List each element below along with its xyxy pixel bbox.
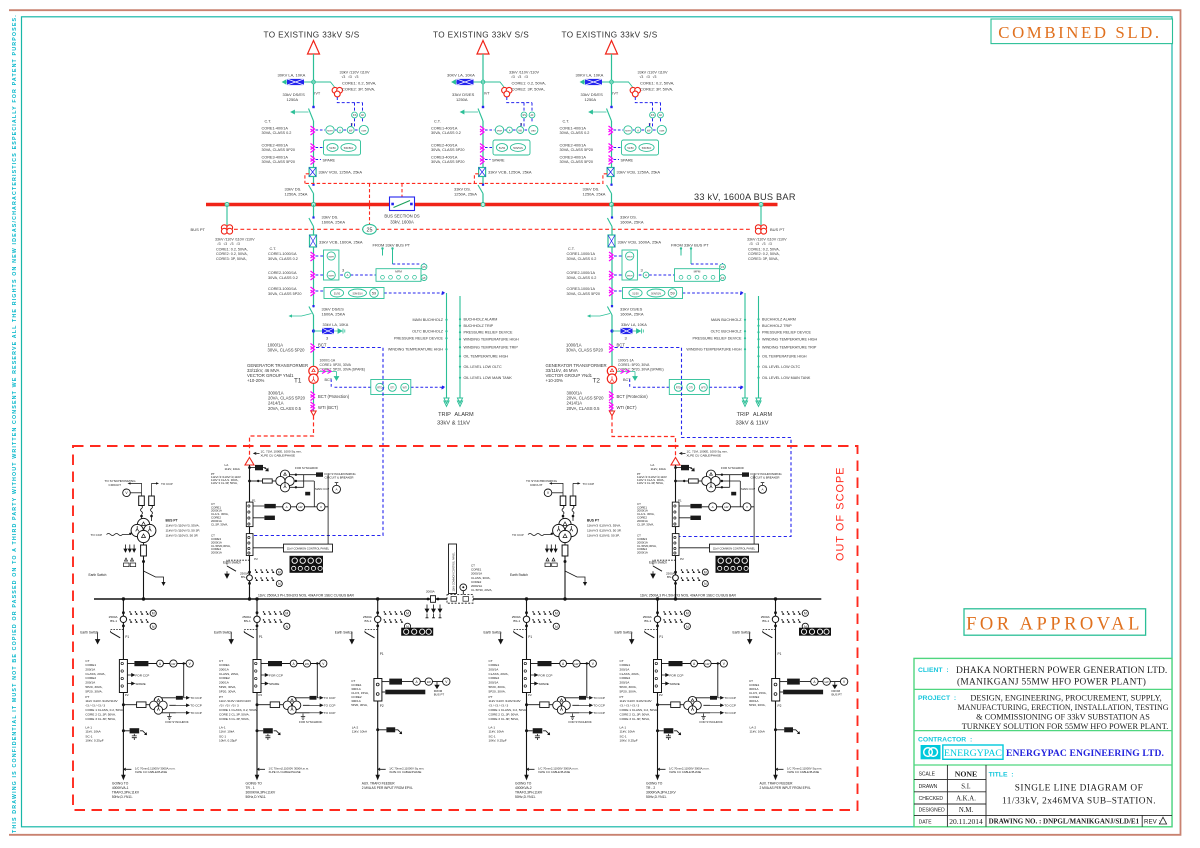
svg-text:3000KVA,3PH,11KV: 3000KVA,3PH,11KV bbox=[646, 791, 677, 795]
svg-text:11/33kV, 2x46MVA SUB–STATION.: 11/33kV, 2x46MVA SUB–STATION. bbox=[1002, 796, 1156, 806]
aux trafo feeder 1 bbox=[335, 597, 450, 790]
svg-text:50Hz,D.YN11.: 50Hz,D.YN11. bbox=[515, 795, 536, 799]
bus PT 2 bbox=[755, 225, 761, 231]
for approval box bbox=[964, 609, 1146, 635]
svg-text:THIS DRAWING IS CONFIDENTIAL I: THIS DRAWING IS CONFIDENTIAL IT MUST NOT… bbox=[12, 14, 18, 833]
svg-text:DRAWING NO. : DNPGL/MANIKGANJ/: DRAWING NO. : DNPGL/MANIKGANJ/SLD/E1 bbox=[989, 817, 1140, 825]
bus junction node bbox=[759, 203, 763, 207]
svg-text:N.M.: N.M. bbox=[959, 807, 974, 814]
title block frame bbox=[914, 658, 1172, 826]
red dashed protection line bbox=[234, 228, 752, 230]
alarm block T2 bbox=[686, 293, 817, 427]
svg-text:CORE1: 0.2, 50VA,: CORE1: 0.2, 50VA, bbox=[216, 248, 248, 252]
svg-text:CLIENT :: CLIENT : bbox=[918, 667, 949, 674]
incomer 1 bus joint bbox=[248, 597, 251, 600]
svg-text:SCALE: SCALE bbox=[919, 771, 936, 777]
svg-text:GOING TO: GOING TO bbox=[646, 782, 663, 786]
11kV feeder bay 2 bbox=[214, 597, 335, 780]
svg-text:GOING TO: GOING TO bbox=[246, 782, 263, 786]
svg-text:GOING TO: GOING TO bbox=[112, 782, 129, 786]
svg-text:4000KVA-2: 4000KVA-2 bbox=[515, 786, 532, 790]
svg-text:CORE1: 0.2, 50VA,: CORE1: 0.2, 50VA, bbox=[748, 248, 780, 252]
mid below-bus arrester set bbox=[425, 605, 429, 613]
svg-text:TURNKEY SOLUTION FOR 55MW HFO: TURNKEY SOLUTION FOR 55MW HFO POWER PLAN… bbox=[962, 722, 1169, 731]
svg-text:CORE2: 0.2, 50VA,: CORE2: 0.2, 50VA, bbox=[748, 252, 780, 256]
svg-text:S.I.: S.I. bbox=[961, 783, 971, 790]
svg-text:TR - 2: TR - 2 bbox=[646, 786, 655, 790]
aux trafo feeder 2 bbox=[733, 597, 848, 790]
svg-text:TO EXISTING 33kV S/S: TO EXISTING 33kV S/S bbox=[263, 31, 359, 40]
svg-text:3000KVA,3PH,11KV: 3000KVA,3PH,11KV bbox=[246, 791, 277, 795]
bus junction node bbox=[610, 203, 614, 207]
mid panel box bbox=[449, 544, 457, 594]
svg-text:T1: T1 bbox=[294, 377, 302, 384]
svg-text:CORE3: 3P, 50VA,: CORE3: 3P, 50VA, bbox=[216, 257, 247, 261]
bus PT 2 riser bbox=[760, 205, 762, 226]
blue dashed link T2 to incomer panel bbox=[615, 348, 792, 537]
svg-text:50Hz,D.YN11.: 50Hz,D.YN11. bbox=[246, 795, 267, 799]
bus PT 1 riser bbox=[226, 205, 228, 226]
svg-text:DESIGNED: DESIGNED bbox=[919, 807, 946, 813]
svg-text:TITLE :: TITLE : bbox=[989, 771, 1014, 778]
mid bus PT bbox=[460, 584, 467, 591]
station transformer group 1 bbox=[89, 479, 200, 599]
svg-text:2000A: 2000A bbox=[426, 590, 435, 594]
svg-text:11kV, 2500A,3 PH, 50HzX3 NOS,: 11kV, 2500A,3 PH, 50HzX3 NOS, 40kA FOR 1… bbox=[258, 594, 354, 598]
alarm block T1 bbox=[388, 293, 519, 427]
33kV bus bar bbox=[206, 203, 778, 206]
11kV incomer 2 bbox=[637, 450, 782, 599]
bus junction node bbox=[225, 203, 229, 207]
svg-text:50Hz,D.YN11.: 50Hz,D.YN11. bbox=[646, 795, 667, 799]
svg-text:OUT OF SCOPE: OUT OF SCOPE bbox=[835, 466, 847, 561]
svg-text:TRAFO,3PH,11KV: TRAFO,3PH,11KV bbox=[112, 791, 140, 795]
svg-text:CONTRACTOR :: CONTRACTOR : bbox=[918, 736, 972, 743]
svg-text:DESIGN, ENGINEERING, PROCUREME: DESIGN, ENGINEERING, PROCUREMENT, SUPPLY… bbox=[970, 694, 1161, 703]
combined sld box bbox=[991, 19, 1173, 44]
svg-text:DHAKA NORTHERN POWER GENERATIO: DHAKA NORTHERN POWER GENERATION LTD. bbox=[956, 666, 1167, 676]
11kV bus bar bbox=[94, 598, 821, 600]
svg-text:√3 √3 √3 √3: √3 √3 √3 √3 bbox=[749, 242, 772, 246]
bus section DS pins bbox=[391, 203, 394, 206]
svg-text:11kV COMMON CONTROL PANEL: 11kV COMMON CONTROL PANEL bbox=[453, 551, 456, 591]
svg-text:MANUFACTURING, ERECTION, INSTA: MANUFACTURING, ERECTION, INSTALLATION, T… bbox=[957, 703, 1168, 712]
svg-text:ENERGYPAC: ENERGYPAC bbox=[944, 748, 1002, 759]
svg-text:BUS PT: BUS PT bbox=[191, 227, 206, 232]
bus dashed device box bbox=[447, 595, 473, 604]
svg-text:ENERGYPAC ENGINEERING LTD.: ENERGYPAC ENGINEERING LTD. bbox=[1006, 748, 1164, 759]
bus PT 1 bbox=[221, 225, 227, 231]
title block row lines bbox=[914, 689, 1172, 765]
transformer bay T2 bbox=[546, 205, 744, 416]
33kV feeder bay 2 bbox=[431, 41, 546, 205]
red dashed drop to bus section DS bbox=[401, 183, 403, 197]
station group 1 bus joint bbox=[142, 597, 145, 600]
transformer bay T1 bbox=[247, 205, 445, 416]
title block small grid bbox=[914, 765, 1172, 827]
svg-text:33kV /110V /110V /110V: 33kV /110V /110V /110V bbox=[747, 238, 787, 242]
bus section DS box bbox=[390, 197, 415, 211]
svg-text:NONE: NONE bbox=[955, 769, 978, 778]
bus section DS blade bbox=[394, 201, 411, 208]
energypac logo box bbox=[943, 745, 1003, 759]
red dashed interlock rail bbox=[306, 182, 604, 184]
svg-text:COMBINED SLD.: COMBINED SLD. bbox=[998, 23, 1161, 42]
svg-text:REV :: REV : bbox=[1144, 818, 1160, 825]
svg-text:GOING TO: GOING TO bbox=[515, 782, 532, 786]
svg-text:11kV, 2500A,3 PH, 50HzX3 NOS,: 11kV, 2500A,3 PH, 50HzX3 NOS, 40kA FOR 1… bbox=[640, 594, 736, 598]
svg-text:T2: T2 bbox=[593, 377, 601, 384]
bus junction node bbox=[481, 203, 485, 207]
rev cell line bbox=[1141, 815, 1143, 826]
energypac logo emblem bbox=[921, 745, 941, 759]
svg-text:(MANIKGANJ 55MW HFO POWER PLAN: (MANIKGANJ 55MW HFO POWER PLANT) bbox=[957, 677, 1146, 688]
svg-text:FOR APPROVAL: FOR APPROVAL bbox=[966, 615, 1143, 635]
33kV feeder bay 3 bbox=[560, 41, 675, 205]
svg-text:TR - 1: TR - 1 bbox=[246, 786, 255, 790]
svg-text:BUS PT: BUS PT bbox=[770, 227, 785, 232]
svg-text:CORE2: 0.2, 50VA,: CORE2: 0.2, 50VA, bbox=[216, 252, 248, 256]
svg-text:33kV, 1600A: 33kV, 1600A bbox=[390, 219, 414, 224]
svg-text:TRAFO,3PH,11KV: TRAFO,3PH,11KV bbox=[515, 791, 543, 795]
svg-text:TO EXISTING 33kV S/S: TO EXISTING 33kV S/S bbox=[433, 31, 529, 40]
svg-text:20.11.2014: 20.11.2014 bbox=[949, 817, 983, 826]
svg-text:BUS SECTION DS: BUS SECTION DS bbox=[384, 214, 420, 219]
station transformer group 2 bbox=[510, 479, 621, 599]
svg-text:SINGLE LINE DIAGRAM OF: SINGLE LINE DIAGRAM OF bbox=[1015, 784, 1144, 794]
svg-text:33kV /110V /110V /110V: 33kV /110V /110V /110V bbox=[215, 238, 255, 242]
red dashed drop to relay 25 bbox=[369, 183, 371, 224]
svg-text:PROJECT :: PROJECT : bbox=[918, 695, 956, 702]
incomer 2 bus joint bbox=[674, 597, 677, 600]
svg-text:& COMMISSIONING OF 33kV SUBSTA: & COMMISSIONING OF 33kV SUBSTATION AS bbox=[976, 712, 1150, 721]
svg-text:DRAWN: DRAWN bbox=[919, 784, 938, 790]
33kV feeder bay 1 bbox=[262, 41, 377, 205]
svg-text:CHECKED: CHECKED bbox=[919, 796, 944, 802]
svg-text:CORE3: 3P, 50VA,: CORE3: 3P, 50VA, bbox=[748, 257, 779, 261]
11kV feeder bay 4 bbox=[615, 597, 736, 780]
svg-text:CL.5P30, 20VA,: CL.5P30, 20VA, bbox=[471, 588, 492, 592]
relay 25 bbox=[363, 224, 377, 234]
red dashed link T1 to incomer 1 bbox=[250, 416, 314, 457]
11kV incomer 1 bbox=[211, 450, 356, 599]
11kV feeder bay 3 bbox=[484, 597, 605, 780]
svg-text:4000KVA-1: 4000KVA-1 bbox=[112, 786, 129, 790]
svg-text:DATE: DATE bbox=[919, 819, 933, 825]
blue dashed link T1 to incomer panel bbox=[251, 348, 383, 536]
11kV feeder bay 1 bbox=[80, 597, 201, 780]
svg-text:33 kV, 1600A BUS BAR: 33 kV, 1600A BUS BAR bbox=[694, 192, 796, 202]
red dashed link T2 to incomer 2 bbox=[612, 416, 676, 457]
svg-text:25: 25 bbox=[367, 227, 373, 233]
out of scope boundary bbox=[73, 446, 858, 810]
svg-text:50Hz,D.YN11.: 50Hz,D.YN11. bbox=[112, 795, 133, 799]
svg-text:√3 √3 √3 √3: √3 √3 √3 √3 bbox=[217, 242, 240, 246]
station group 2 bus joint bbox=[563, 597, 566, 600]
svg-text:A.K.A.: A.K.A. bbox=[956, 796, 976, 803]
bus junction node bbox=[312, 203, 316, 207]
svg-text:TO EXISTING 33kV S/S: TO EXISTING 33kV S/S bbox=[561, 31, 657, 40]
